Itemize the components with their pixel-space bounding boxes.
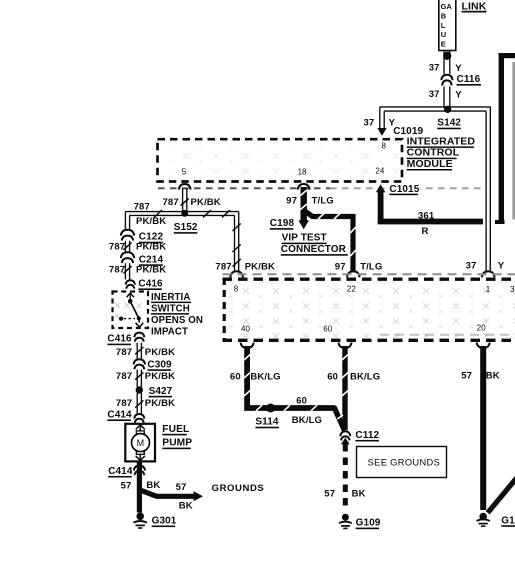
fuse link box (20 GA BLUE) xyxy=(439,0,456,51)
svg-text:C116: C116 xyxy=(457,74,481,85)
svg-text:57: 57 xyxy=(324,489,335,500)
svg-text:S427: S427 xyxy=(149,386,173,397)
wire 57 BK PCM pin 20 down to ground xyxy=(477,343,490,510)
svg-text:40: 40 xyxy=(241,325,250,334)
svg-text:97: 97 xyxy=(335,262,346,273)
svg-text:361: 361 xyxy=(418,210,435,221)
svg-text:R: R xyxy=(422,226,429,237)
svg-text:8: 8 xyxy=(382,142,387,151)
svg-text:S152: S152 xyxy=(174,222,198,233)
label VIP TEST CONNECTOR xyxy=(281,233,348,256)
svg-text:787: 787 xyxy=(134,201,150,212)
svg-text:S114: S114 xyxy=(255,417,279,428)
svg-text:E: E xyxy=(441,40,446,49)
svg-text:8: 8 xyxy=(234,284,239,293)
wire 787 PK/BK S152 right to PCM pin 8 xyxy=(186,210,241,273)
svg-text:CONNECTOR: CONNECTOR xyxy=(281,244,347,255)
connector C122 xyxy=(121,230,164,244)
splice S152 xyxy=(174,210,198,234)
svg-text:BK: BK xyxy=(179,501,193,512)
connector C416 upper xyxy=(126,279,163,291)
svg-text:PK/BK: PK/BK xyxy=(145,398,175,409)
ground G100 xyxy=(477,513,515,527)
fuel pump box with motor xyxy=(125,424,155,462)
arrow into ICM C1019 xyxy=(377,128,386,136)
partial component box right edge xyxy=(495,53,515,224)
svg-text:PK/BK: PK/BK xyxy=(191,197,221,208)
svg-text:LINK: LINK xyxy=(462,0,487,12)
svg-text:5: 5 xyxy=(182,168,187,177)
svg-text:22: 22 xyxy=(347,284,356,293)
svg-text:PK/BK: PK/BK xyxy=(145,347,175,358)
connector C414 lower xyxy=(108,466,145,478)
svg-text:37: 37 xyxy=(466,261,477,272)
svg-text:C414: C414 xyxy=(107,409,132,420)
svg-text:C198: C198 xyxy=(270,218,295,229)
svg-text:787: 787 xyxy=(116,371,132,382)
label LINK xyxy=(462,0,487,12)
wire C122 to C214 xyxy=(123,241,131,253)
connector C309 xyxy=(134,359,173,371)
wire 787 PK/BK C309 to S427 xyxy=(135,370,143,387)
svg-text:SWITCH: SWITCH xyxy=(151,303,190,314)
node junction below fuse link xyxy=(443,52,451,60)
svg-text:C414: C414 xyxy=(108,466,133,477)
svg-text:3: 3 xyxy=(510,285,515,294)
svg-text:GA: GA xyxy=(441,2,453,11)
svg-text:C112: C112 xyxy=(355,430,379,441)
label FUEL PUMP xyxy=(162,424,192,449)
svg-text:Y: Y xyxy=(455,89,462,100)
svg-text:SEE GROUNDS: SEE GROUNDS xyxy=(368,457,441,467)
wire 787 PK/BK C416 to C309 xyxy=(135,343,143,360)
wire 57 BK branch to grounds arrow xyxy=(139,490,203,502)
svg-text:787: 787 xyxy=(116,398,132,409)
connector C214 xyxy=(121,252,164,266)
svg-text:G1: G1 xyxy=(501,515,515,526)
svg-text:57: 57 xyxy=(461,370,472,381)
label C1015 xyxy=(388,183,420,196)
splice S142 xyxy=(437,106,461,130)
svg-text:C1015: C1015 xyxy=(389,184,419,195)
svg-text:T/LG: T/LG xyxy=(312,196,334,207)
svg-text:IMPACT: IMPACT xyxy=(151,326,188,337)
wire 37 Y fuse link to C116 xyxy=(444,51,450,74)
svg-text:S142: S142 xyxy=(437,118,461,129)
svg-text:BK: BK xyxy=(486,370,500,381)
connector C116 xyxy=(441,74,481,86)
svg-text:787: 787 xyxy=(109,242,125,253)
svg-text:GROUNDS: GROUNDS xyxy=(212,483,265,494)
svg-text:C416: C416 xyxy=(107,334,132,345)
svg-text:BK/LG: BK/LG xyxy=(250,371,280,382)
PCM connector band xyxy=(223,274,515,341)
svg-text:24: 24 xyxy=(375,167,384,176)
svg-text:PUMP: PUMP xyxy=(162,438,192,449)
wire 361 R ICM pin 24 xyxy=(376,184,483,221)
splice S114 xyxy=(255,404,279,429)
wire 57 BK C112 to G109 dashed xyxy=(343,444,348,511)
svg-text:57: 57 xyxy=(121,480,132,491)
svg-text:VIP TEST: VIP TEST xyxy=(282,233,327,244)
svg-text:BK: BK xyxy=(352,489,366,500)
svg-text:BK/LG: BK/LG xyxy=(292,415,322,426)
svg-text:MODULE: MODULE xyxy=(407,158,453,170)
svg-text:787: 787 xyxy=(109,265,125,276)
svg-text:BK: BK xyxy=(146,480,160,491)
svg-text:PK/BK: PK/BK xyxy=(136,242,166,253)
wire end bump pin 1 xyxy=(482,271,495,277)
wire 37 Y S142 left to C1019 arrow xyxy=(380,107,491,129)
connector C414 upper xyxy=(107,409,144,422)
wire 60 BK/LG PCM pin 40 down to S114 xyxy=(241,343,336,411)
integrated control module box xyxy=(158,139,403,181)
svg-text:M: M xyxy=(137,438,145,448)
svg-text:787: 787 xyxy=(215,261,231,272)
svg-text:FUEL: FUEL xyxy=(162,424,189,435)
svg-text:60: 60 xyxy=(296,396,307,407)
svg-text:787: 787 xyxy=(116,347,132,358)
svg-text:60: 60 xyxy=(230,371,241,382)
svg-text:97: 97 xyxy=(286,196,297,207)
wire 60 BK/LG PCM pin 60 down xyxy=(334,343,352,431)
inertia switch box xyxy=(113,292,149,329)
svg-text:37: 37 xyxy=(429,89,440,100)
svg-text:PK/BK: PK/BK xyxy=(136,216,166,227)
connector C112 xyxy=(340,430,379,445)
ground G109 xyxy=(339,514,381,529)
label INERTIA SWITCH OPENS ON IMPACT xyxy=(151,292,203,338)
svg-text:L: L xyxy=(441,21,446,30)
svg-text:60: 60 xyxy=(327,371,338,382)
svg-text:C416: C416 xyxy=(138,279,163,290)
svg-text:787: 787 xyxy=(163,197,179,208)
connector C416 lower xyxy=(107,333,144,346)
wire 97 T/LG ICM pin 18 to C198 arrow xyxy=(298,184,310,229)
wire 37 Y C116 to S142 xyxy=(444,87,450,109)
svg-text:T/LG: T/LG xyxy=(360,262,382,273)
svg-text:37: 37 xyxy=(429,63,440,74)
svg-text:Y: Y xyxy=(498,261,505,272)
ground G301 xyxy=(134,513,177,529)
wire end bump pin 8 xyxy=(230,271,243,277)
svg-text:20: 20 xyxy=(477,324,486,333)
wire 57 BK fuel pump to G301 xyxy=(137,462,142,513)
svg-text:INERTIA: INERTIA xyxy=(151,292,190,303)
wire 787 PK/BK ICM pin 5 down to S152 xyxy=(179,184,191,213)
svg-text:G301: G301 xyxy=(152,516,177,527)
svg-text:PK/BK: PK/BK xyxy=(136,265,166,276)
wire end bump pin 22 xyxy=(347,271,360,277)
svg-text:57: 57 xyxy=(176,482,187,493)
svg-text:18: 18 xyxy=(298,168,307,177)
switch symbol xyxy=(127,293,134,297)
wire C214 to C416 xyxy=(123,263,131,279)
box SEE GROUNDS xyxy=(357,447,447,478)
svg-text:OPENS ON: OPENS ON xyxy=(151,315,203,326)
wire 37 Y S142 right down to PCM pin 1 xyxy=(486,107,490,272)
label INTEGRATED CONTROL MODULE xyxy=(407,135,476,170)
svg-text:U: U xyxy=(441,30,446,39)
wire diagonal to right edge xyxy=(488,478,515,513)
gray dashed line below ICM xyxy=(158,187,330,189)
svg-text:G109: G109 xyxy=(356,518,381,529)
svg-text:PK/BK: PK/BK xyxy=(245,261,275,272)
svg-text:CONTROL: CONTROL xyxy=(407,147,460,159)
wire 787 PK/BK S427 to C414 xyxy=(135,393,143,415)
svg-text:C309: C309 xyxy=(147,359,172,370)
svg-text:Y: Y xyxy=(455,63,462,74)
wire 97 T/LG branch to PCM pin 22 xyxy=(305,211,356,273)
svg-text:1: 1 xyxy=(486,285,491,294)
svg-text:37: 37 xyxy=(364,117,375,128)
svg-text:B: B xyxy=(441,12,447,21)
svg-text:60: 60 xyxy=(323,325,332,334)
svg-text:BK/LG: BK/LG xyxy=(350,371,380,382)
wire 787 left from S152 xyxy=(125,210,185,231)
svg-text:INTEGRATED: INTEGRATED xyxy=(407,135,476,147)
splice S427 xyxy=(136,386,173,398)
svg-text:PK/BK: PK/BK xyxy=(145,371,175,382)
label C198 xyxy=(270,218,295,230)
